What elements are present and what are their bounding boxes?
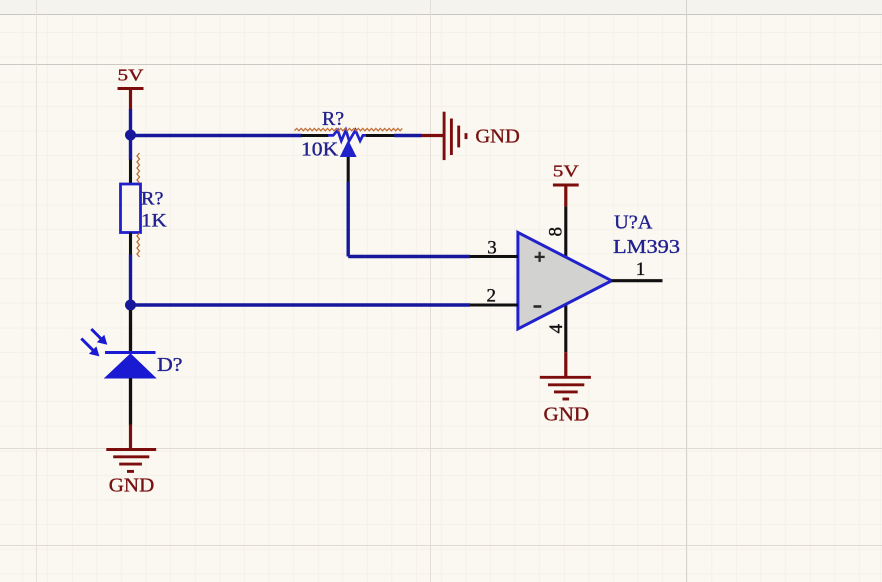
compile-error squiggle (under pot R? label) [295,128,403,130]
svg-text:D?: D? [157,354,183,376]
svg-text:3: 3 [487,238,497,259]
node B (junction dot) [125,300,136,311]
photodiode D1 light arrow (lower) [81,339,99,357]
potentiometer R2 right pin [366,134,394,137]
wire: pot right pin to ground (right) [394,134,422,137]
svg-text:R?: R? [141,188,163,209]
power symbol 5V (over op-amp) [553,161,580,206]
ground GND (below op-amp) [540,352,591,425]
svg-text:GND: GND [109,475,155,497]
pin 3 (non-inverting input) [470,255,518,258]
resistor R1 (R? 1K) [121,160,141,255]
compile-error squiggle (above R1 body) [137,153,140,183]
wire: junction A to potentiometer left pin [131,134,303,137]
svg-text:5V: 5V [553,161,580,180]
node A (junction dot) [125,130,136,141]
svg-text:2: 2 [487,286,497,307]
pin number 2 [487,286,497,307]
svg-text:4: 4 [546,324,567,334]
pin number 1 [636,259,646,280]
compile-error squiggle (below R1 body) [137,233,140,257]
pin: pot wiper pin (black) [347,157,350,182]
ground GND (bottom left) [106,425,156,497]
pin number 3 [487,238,497,259]
op-amp minus marking [534,305,542,308]
photodiode D1 body (triangle) [105,354,156,378]
power symbol 5V (left) [118,66,145,110]
svg-text:1: 1 [636,259,646,280]
pin 1 (output) [612,279,663,282]
ground GND (right of pot, sideways) [422,112,520,160]
pin 4 (V-) [564,303,567,352]
potentiometer R2 zigzag body [328,130,367,141]
svg-text:GND: GND [544,404,590,426]
potentiometer R2 wiper arrow [340,140,357,157]
potentiometer R2 left pin [301,134,329,137]
op-amp plus marking [535,252,545,262]
wire: junction A down to resistor R1 [129,135,132,160]
photodiode D1 cathode bar [105,351,156,354]
wire: junction B to op-amp inverting input [131,303,471,306]
svg-text:10K: 10K [301,139,339,161]
top band (decorative) [0,0,882,14]
label D? (photodiode designator) [157,354,183,376]
svg-text:8: 8 [546,227,567,237]
pin number 8 (rotated) [546,227,567,237]
label R? (R1 designator) [141,188,163,209]
svg-text:R?: R? [322,108,344,130]
svg-text:LM393: LM393 [613,236,680,258]
svg-text:1K: 1K [141,211,167,232]
label LM393 (op-amp part) [613,236,680,258]
svg-text:GND: GND [475,125,519,147]
wire: photodiode D1 to ground [129,378,132,425]
wire: junction B down to photodiode D1 [129,310,132,352]
wire: resistor R1 to junction B [129,255,132,306]
svg-text:5V: 5V [118,66,145,85]
pin number 4 (rotated) [546,324,567,334]
wire: 5V stem to junction A [129,109,132,135]
pin 8 (V+) [564,206,567,258]
pin 2 (inverting input) [470,303,518,306]
label R? (pot designator) [322,108,344,130]
op-amp U1 body [518,232,612,329]
label U?A (op-amp designator) [614,212,653,234]
photodiode D1 light arrow (upper) [91,329,107,345]
wire: pot wiper down and right to op-amp non-inverting input [348,182,470,257]
label 1K (R1 value) [141,211,167,232]
svg-text:U?A: U?A [614,212,653,234]
label 10K (pot value) [301,139,339,161]
